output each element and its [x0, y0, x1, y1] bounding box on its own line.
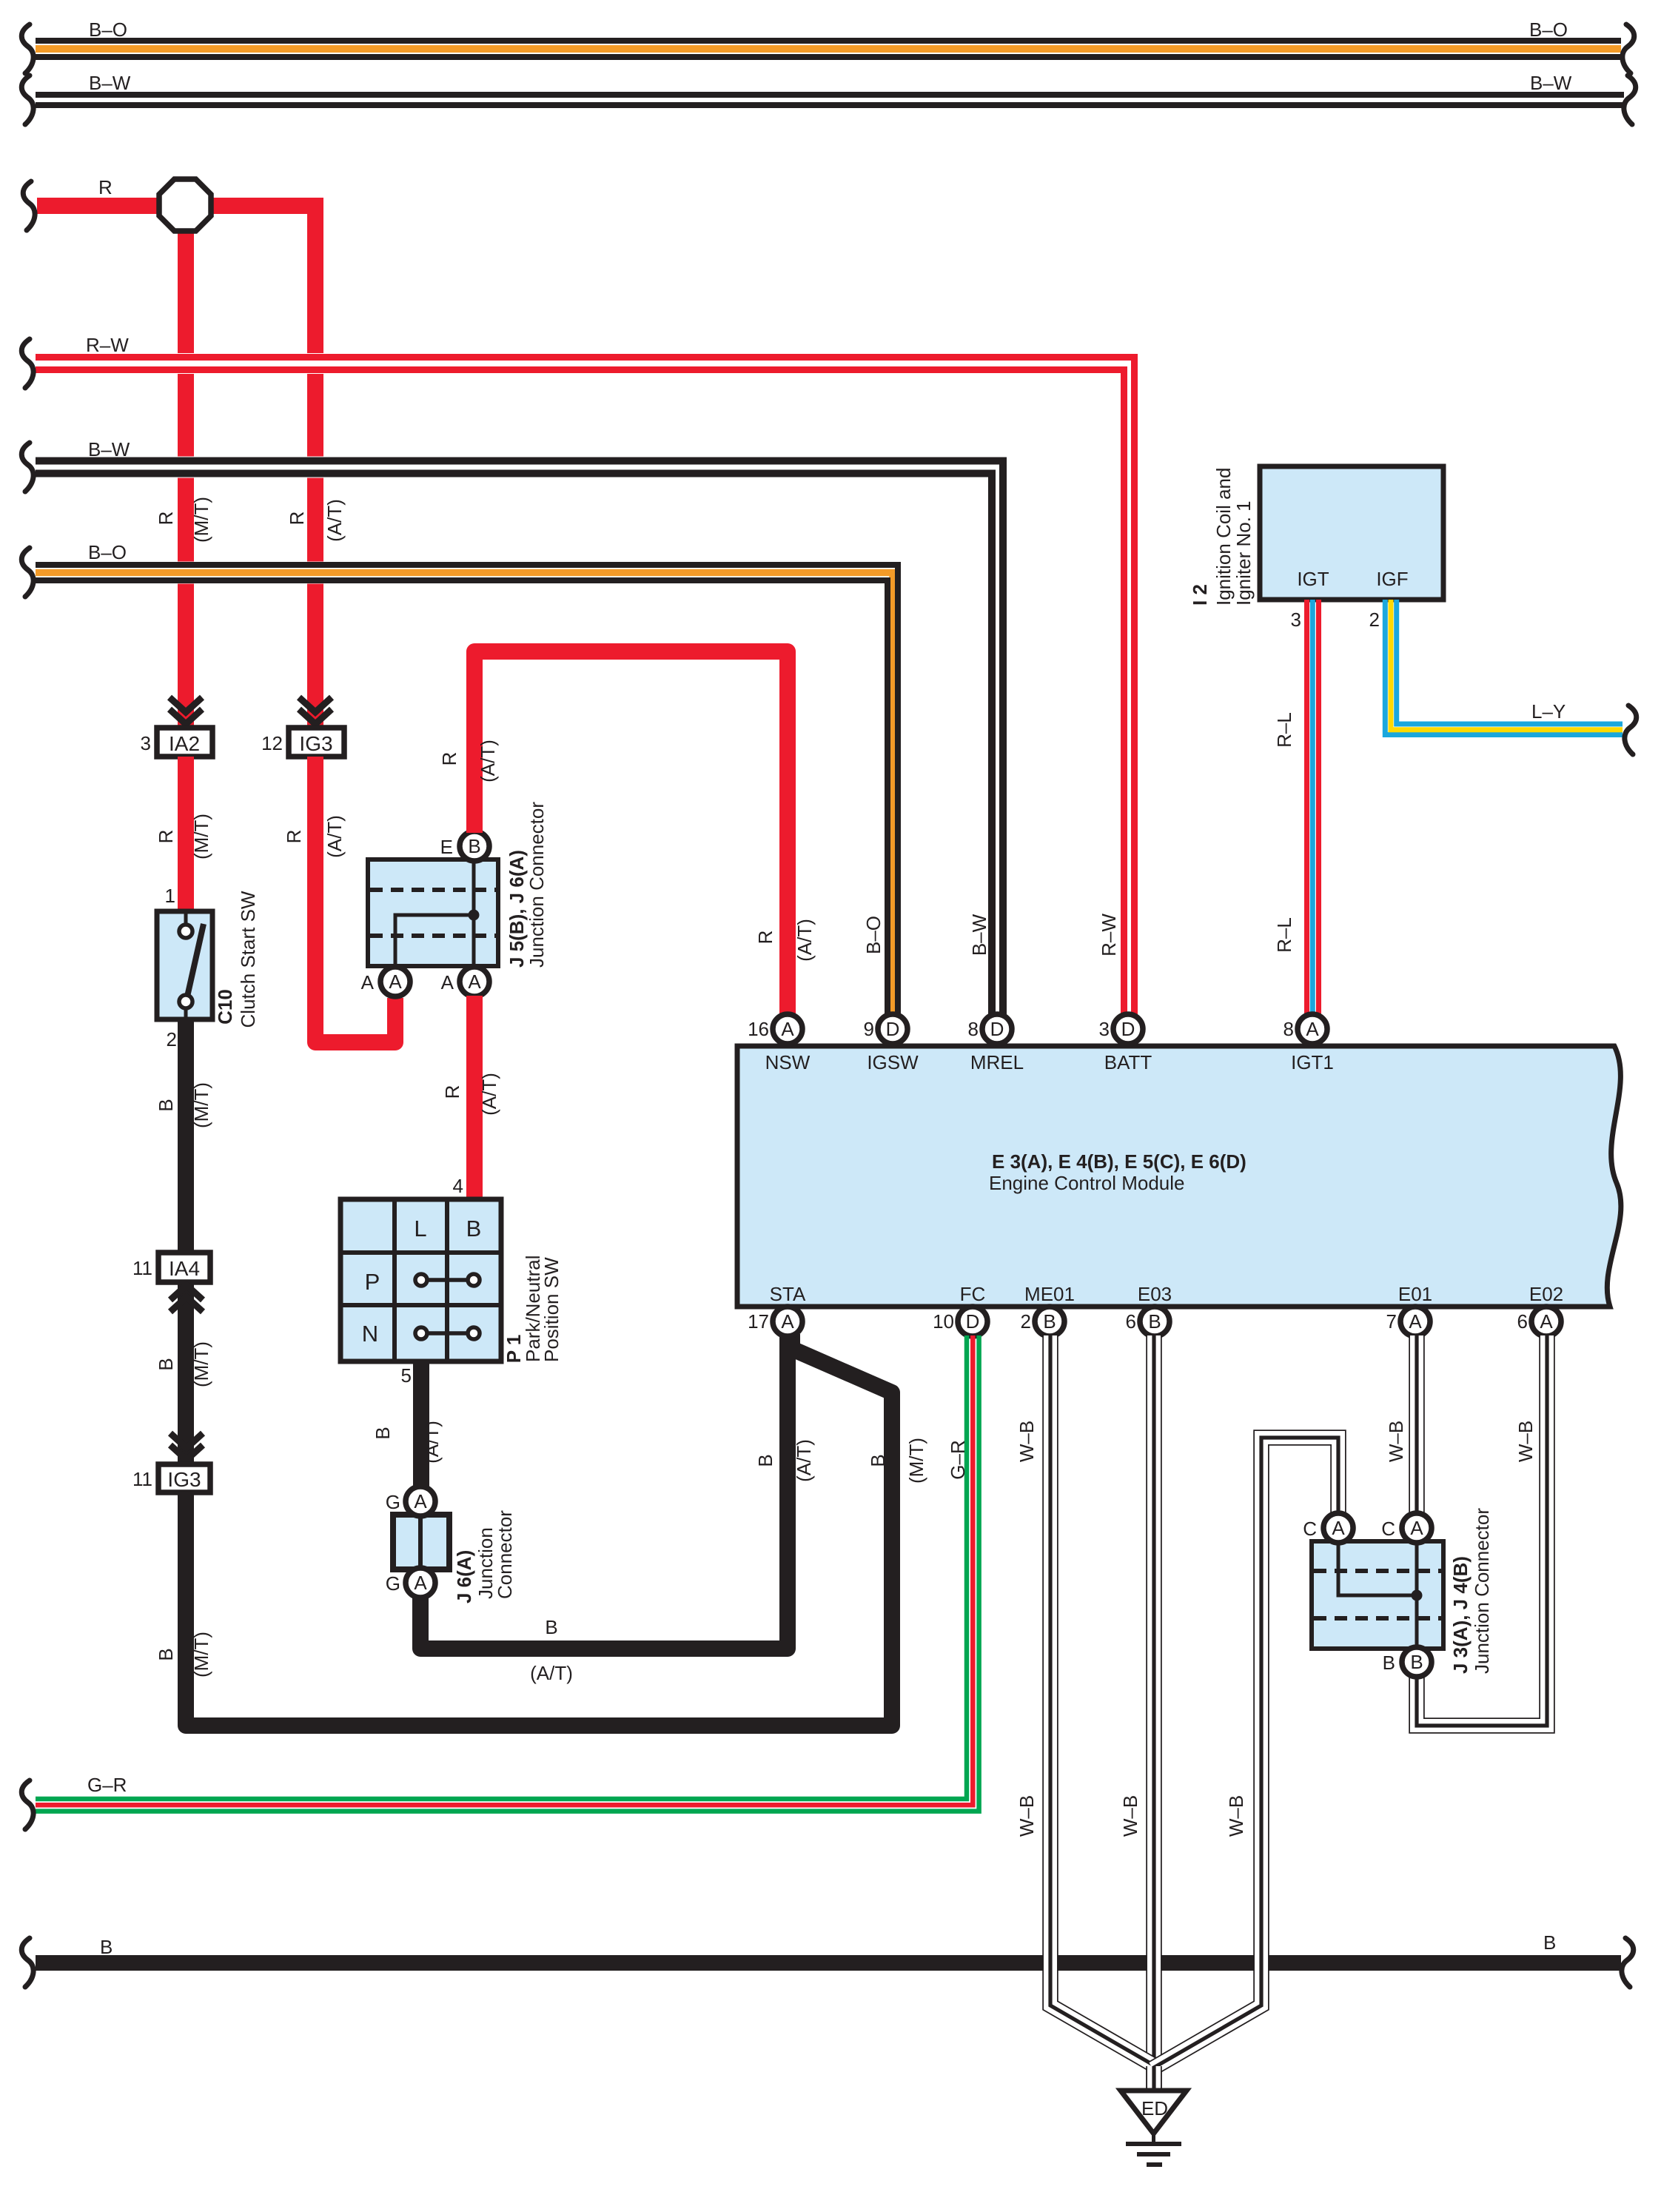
svg-text:B: B [100, 1936, 113, 1958]
module ECM Engine Control Module box [737, 1046, 1621, 1307]
svg-text:E02: E02 [1529, 1283, 1563, 1305]
svg-text:B: B [155, 1358, 177, 1370]
svg-text:B–O: B–O [89, 19, 127, 41]
svg-text:E03: E03 [1138, 1283, 1172, 1305]
svg-text:R: R [155, 830, 177, 844]
svg-text:B: B [155, 1648, 177, 1660]
svg-text:B: B [155, 1099, 177, 1111]
node splice octagon [159, 179, 211, 231]
svg-text:D: D [886, 1018, 900, 1040]
svg-text:IGSW: IGSW [867, 1051, 919, 1073]
svg-text:2: 2 [1021, 1310, 1031, 1333]
svg-text:A: A [1306, 1018, 1319, 1040]
wire W-B from E03 to ground [1146, 1335, 1162, 2091]
svg-text:Junction Connector: Junction Connector [1471, 1508, 1493, 1674]
svg-text:E: E [440, 836, 453, 858]
svg-text:B: B [867, 1454, 889, 1467]
terminal A top of J6(A) [406, 1487, 435, 1516]
svg-text:B: B [1383, 1652, 1395, 1674]
wire B (A/T) from P1 pin 5 to J6(A) [413, 1361, 429, 1487]
svg-text:A: A [781, 1310, 794, 1333]
svg-text:R–L: R–L [1273, 712, 1295, 748]
terminal FC 10(D) [958, 1307, 987, 1336]
svg-text:B–W: B–W [1530, 72, 1572, 94]
svg-text:A: A [441, 971, 454, 993]
svg-text:3: 3 [1291, 609, 1301, 631]
svg-text:11: 11 [132, 1257, 152, 1279]
svg-text:ED: ED [1141, 2097, 1168, 2119]
terminal ME01 2(B) [1035, 1307, 1064, 1336]
svg-text:G–R: G–R [87, 1774, 127, 1796]
svg-text:6: 6 [1517, 1310, 1528, 1333]
terminal C(A) left of J3 [1323, 1513, 1353, 1543]
svg-text:R: R [286, 512, 308, 526]
svg-text:10: 10 [933, 1310, 954, 1333]
svg-text:W–B: W–B [1385, 1421, 1407, 1462]
svg-text:Ignition Coil and: Ignition Coil and [1212, 468, 1235, 606]
terminal C(A) right of J3 [1402, 1513, 1432, 1543]
svg-text:J 3(A), J 4(B): J 3(A), J 4(B) [1449, 1556, 1472, 1674]
svg-text:B: B [466, 1216, 482, 1241]
svg-text:E01: E01 [1398, 1283, 1432, 1305]
terminal IGT1 8(A) [1298, 1014, 1327, 1044]
svg-text:R: R [441, 1085, 463, 1099]
svg-text:B–W: B–W [968, 914, 990, 956]
svg-text:IGT1: IGT1 [1291, 1051, 1334, 1073]
svg-text:L–Y: L–Y [1531, 700, 1566, 723]
svg-text:17: 17 [748, 1310, 769, 1333]
svg-text:9: 9 [864, 1018, 874, 1040]
wire B ground bus (bottom) [36, 1955, 1621, 1971]
wire B (M/T) from C10 to IA4 [178, 1019, 194, 1253]
terminal A1 of J5 [380, 967, 410, 996]
svg-text:R–L: R–L [1273, 917, 1295, 953]
svg-text:A: A [361, 971, 375, 993]
svg-text:2: 2 [167, 1028, 177, 1050]
svg-text:Igniter No. 1: Igniter No. 1 [1232, 500, 1255, 606]
svg-text:G–R: G–R [947, 1440, 969, 1479]
terminal E03 6(B) [1140, 1307, 1170, 1336]
wire B (M/T) between IA4 and IG3 [178, 1282, 194, 1464]
wire R (A/T) below IG3 to J5 [315, 757, 395, 1042]
svg-text:D: D [990, 1018, 1004, 1040]
wire B-W bus (second) [36, 92, 1624, 98]
svg-text:IA4: IA4 [169, 1257, 200, 1280]
svg-text:W–B: W–B [1225, 1795, 1247, 1837]
junction arrow down into IG3 [170, 1433, 203, 1448]
svg-text:B: B [1148, 1310, 1161, 1333]
svg-text:ME01: ME01 [1024, 1283, 1075, 1305]
svg-text:Engine Control Module: Engine Control Module [989, 1172, 1185, 1194]
junction arrow into IA2 [170, 697, 202, 712]
svg-text:A: A [414, 1572, 427, 1594]
svg-text:(A/T): (A/T) [323, 815, 346, 858]
svg-text:B: B [468, 835, 480, 857]
svg-text:A: A [389, 971, 402, 993]
wire L-Y from IGF to right [1385, 600, 1623, 735]
junction arrow up into IA4 [170, 1285, 203, 1300]
wire W-B from E01 to J3 C(A) [1409, 1335, 1425, 1515]
svg-text:FC: FC [960, 1283, 986, 1305]
svg-text:3: 3 [1099, 1018, 1110, 1040]
svg-text:Junction Connector: Junction Connector [526, 802, 548, 968]
svg-text:R: R [283, 830, 305, 844]
svg-text:D: D [1121, 1018, 1135, 1040]
wire W-B from E02 to J3 B(B) [1417, 1335, 1547, 1726]
wire R thick red horizontal feed [37, 198, 323, 214]
terminal STA 17(A) [773, 1307, 802, 1336]
wire B-O to IGSW [36, 573, 893, 1016]
svg-text:W–B: W–B [1016, 1795, 1038, 1837]
svg-text:C: C [1381, 1518, 1395, 1540]
svg-text:R: R [155, 512, 177, 526]
svg-text:4: 4 [453, 1175, 463, 1197]
svg-text:R–W: R–W [1098, 914, 1120, 956]
ground ED triangle [1121, 2091, 1187, 2134]
svg-text:A: A [414, 1490, 427, 1512]
wire B (M/T) from IG3 down, right, up to STA (fork) [186, 1334, 892, 1726]
svg-text:G: G [386, 1572, 400, 1595]
wire B-W to MREL [36, 467, 998, 1015]
svg-text:(A/T): (A/T) [793, 1439, 815, 1482]
wire W-B merged segment to ground [1146, 2066, 1162, 2091]
svg-text:I 2: I 2 [1189, 584, 1211, 606]
switch P1 Park/Neutral Position SW [340, 1199, 501, 1361]
wire W-B from J3 C(A) to ground [1152, 1438, 1338, 2068]
switch P1 contact row P [427, 1278, 468, 1282]
svg-text:E 3(A), E 4(B), E 5(C), E 6(D): E 3(A), E 4(B), E 5(C), E 6(D) [992, 1150, 1246, 1173]
svg-text:B: B [1410, 1651, 1423, 1673]
terminal NSW 16(A) [773, 1014, 802, 1044]
svg-text:8: 8 [1283, 1018, 1294, 1040]
wire G-R from FC to left [36, 1335, 967, 1799]
svg-text:16: 16 [748, 1018, 769, 1040]
svg-text:B: B [1043, 1310, 1056, 1333]
junction connector J3(A) J4(B) box [1312, 1541, 1443, 1649]
svg-text:L: L [414, 1216, 426, 1241]
svg-text:(M/T): (M/T) [905, 1438, 927, 1484]
svg-text:A: A [1410, 1517, 1423, 1539]
terminal E02 6(A) [1531, 1307, 1561, 1336]
wire W-B from ME01 to ground [1050, 1335, 1155, 2066]
wire R (A/T) vertical red [307, 198, 323, 728]
svg-text:NSW: NSW [765, 1051, 811, 1073]
svg-text:N: N [362, 1321, 378, 1347]
switch P1 contact row N [427, 1331, 468, 1335]
svg-text:IA2: IA2 [169, 732, 200, 755]
wire R-W to BATT [36, 363, 1130, 1015]
svg-text:(M/T): (M/T) [190, 1082, 212, 1128]
svg-text:J 5(B), J 6(A): J 5(B), J 6(A) [506, 850, 528, 968]
junction connector J6(A) box [393, 1515, 449, 1569]
svg-text:B–W: B–W [88, 438, 130, 460]
svg-text:R–W: R–W [86, 334, 129, 356]
svg-text:B: B [545, 1616, 557, 1638]
svg-text:B–O: B–O [862, 916, 885, 954]
terminal B(B) of J3 [1402, 1647, 1432, 1677]
wire B (A/T) from J6(A) to STA [420, 1333, 788, 1649]
svg-text:IG3: IG3 [167, 1468, 201, 1491]
junction connector J5(B) J6(A) box [368, 859, 498, 966]
svg-text:D: D [966, 1310, 980, 1333]
svg-text:A: A [1409, 1310, 1422, 1333]
svg-text:B: B [372, 1427, 394, 1439]
svg-text:IG3: IG3 [299, 732, 332, 755]
wire R-L from IGT to IGT1 [1304, 600, 1309, 1015]
terminal A2 of J5 [460, 967, 489, 996]
ground symbol bars [1152, 2134, 1155, 2143]
svg-text:(A/T): (A/T) [323, 499, 346, 542]
wire R (A/T) loop from J5 B up and to NSW [474, 651, 788, 1014]
connector IG3 lower (pin 11) [158, 1464, 210, 1492]
component I2 Ignition Coil and Igniter No. 1 [1260, 466, 1443, 600]
svg-text:11: 11 [132, 1468, 152, 1490]
connector IG3 (pin 12) [289, 728, 344, 757]
svg-text:J 6(A): J 6(A) [453, 1550, 475, 1603]
svg-text:IGF: IGF [1376, 568, 1408, 590]
svg-text:2: 2 [1369, 609, 1380, 631]
svg-text:(A/T): (A/T) [477, 740, 499, 782]
svg-text:C: C [1303, 1518, 1317, 1540]
wire R (M/T) vertical red [178, 198, 194, 728]
svg-text:(A/T): (A/T) [420, 1421, 443, 1464]
svg-text:(A/T): (A/T) [793, 919, 816, 962]
svg-text:A: A [1540, 1310, 1553, 1333]
svg-text:C10: C10 [214, 989, 236, 1025]
svg-text:B–W: B–W [89, 72, 131, 94]
svg-text:1: 1 [165, 885, 175, 907]
connector IA4 (pin 11) [158, 1253, 210, 1282]
svg-text:R: R [98, 176, 113, 198]
svg-text:A: A [468, 971, 481, 993]
terminal MREL 8(D) [982, 1014, 1012, 1044]
svg-text:(M/T): (M/T) [190, 1632, 212, 1678]
svg-text:W–B: W–B [1016, 1421, 1038, 1462]
svg-text:IGT: IGT [1297, 568, 1329, 590]
svg-text:MREL: MREL [970, 1051, 1024, 1073]
terminal IGSW 9(D) [878, 1014, 907, 1044]
svg-text:3: 3 [141, 732, 151, 754]
connector IA2 (pin 3) [157, 728, 212, 757]
svg-text:B: B [754, 1454, 776, 1467]
terminal B of J5 [460, 831, 489, 861]
svg-text:R: R [438, 752, 460, 766]
svg-text:Clutch Start SW: Clutch Start SW [237, 891, 259, 1028]
svg-text:(A/T): (A/T) [478, 1073, 500, 1116]
svg-text:W–B: W–B [1119, 1795, 1141, 1837]
svg-text:(A/T): (A/T) [530, 1662, 573, 1684]
svg-text:STA: STA [770, 1283, 806, 1305]
svg-text:B–O: B–O [1529, 19, 1568, 41]
svg-text:(M/T): (M/T) [190, 497, 212, 543]
svg-text:R: R [754, 931, 776, 945]
svg-text:12: 12 [261, 732, 283, 754]
svg-text:7: 7 [1386, 1310, 1397, 1333]
svg-text:G: G [386, 1491, 400, 1513]
svg-text:(M/T): (M/T) [190, 814, 212, 859]
svg-text:BATT: BATT [1104, 1051, 1152, 1073]
wire B-O bus (top) [36, 38, 1621, 44]
svg-text:Position SW: Position SW [540, 1257, 563, 1362]
svg-text:8: 8 [968, 1018, 979, 1040]
terminal A bottom of J6(A) [406, 1568, 435, 1598]
svg-text:W–B: W–B [1514, 1421, 1537, 1462]
wire R (M/T) below IA2 [178, 757, 194, 911]
svg-text:5: 5 [401, 1364, 412, 1387]
svg-text:P: P [365, 1269, 380, 1295]
svg-text:6: 6 [1126, 1310, 1136, 1333]
wire R (A/T) from J5 A2 down to P1 pin 4 [466, 996, 483, 1199]
svg-text:B–O: B–O [88, 541, 127, 563]
svg-text:A: A [1332, 1517, 1345, 1539]
svg-text:B: B [1543, 1931, 1556, 1954]
svg-text:(M/T): (M/T) [190, 1341, 212, 1387]
svg-text:A: A [781, 1018, 794, 1040]
svg-text:Connector: Connector [494, 1510, 516, 1599]
terminal E01 7(A) [1400, 1307, 1430, 1336]
junction arrow into IG3 [299, 697, 332, 712]
terminal BATT 3(D) [1113, 1014, 1143, 1044]
switch C10 Clutch Start SW [157, 911, 212, 1019]
